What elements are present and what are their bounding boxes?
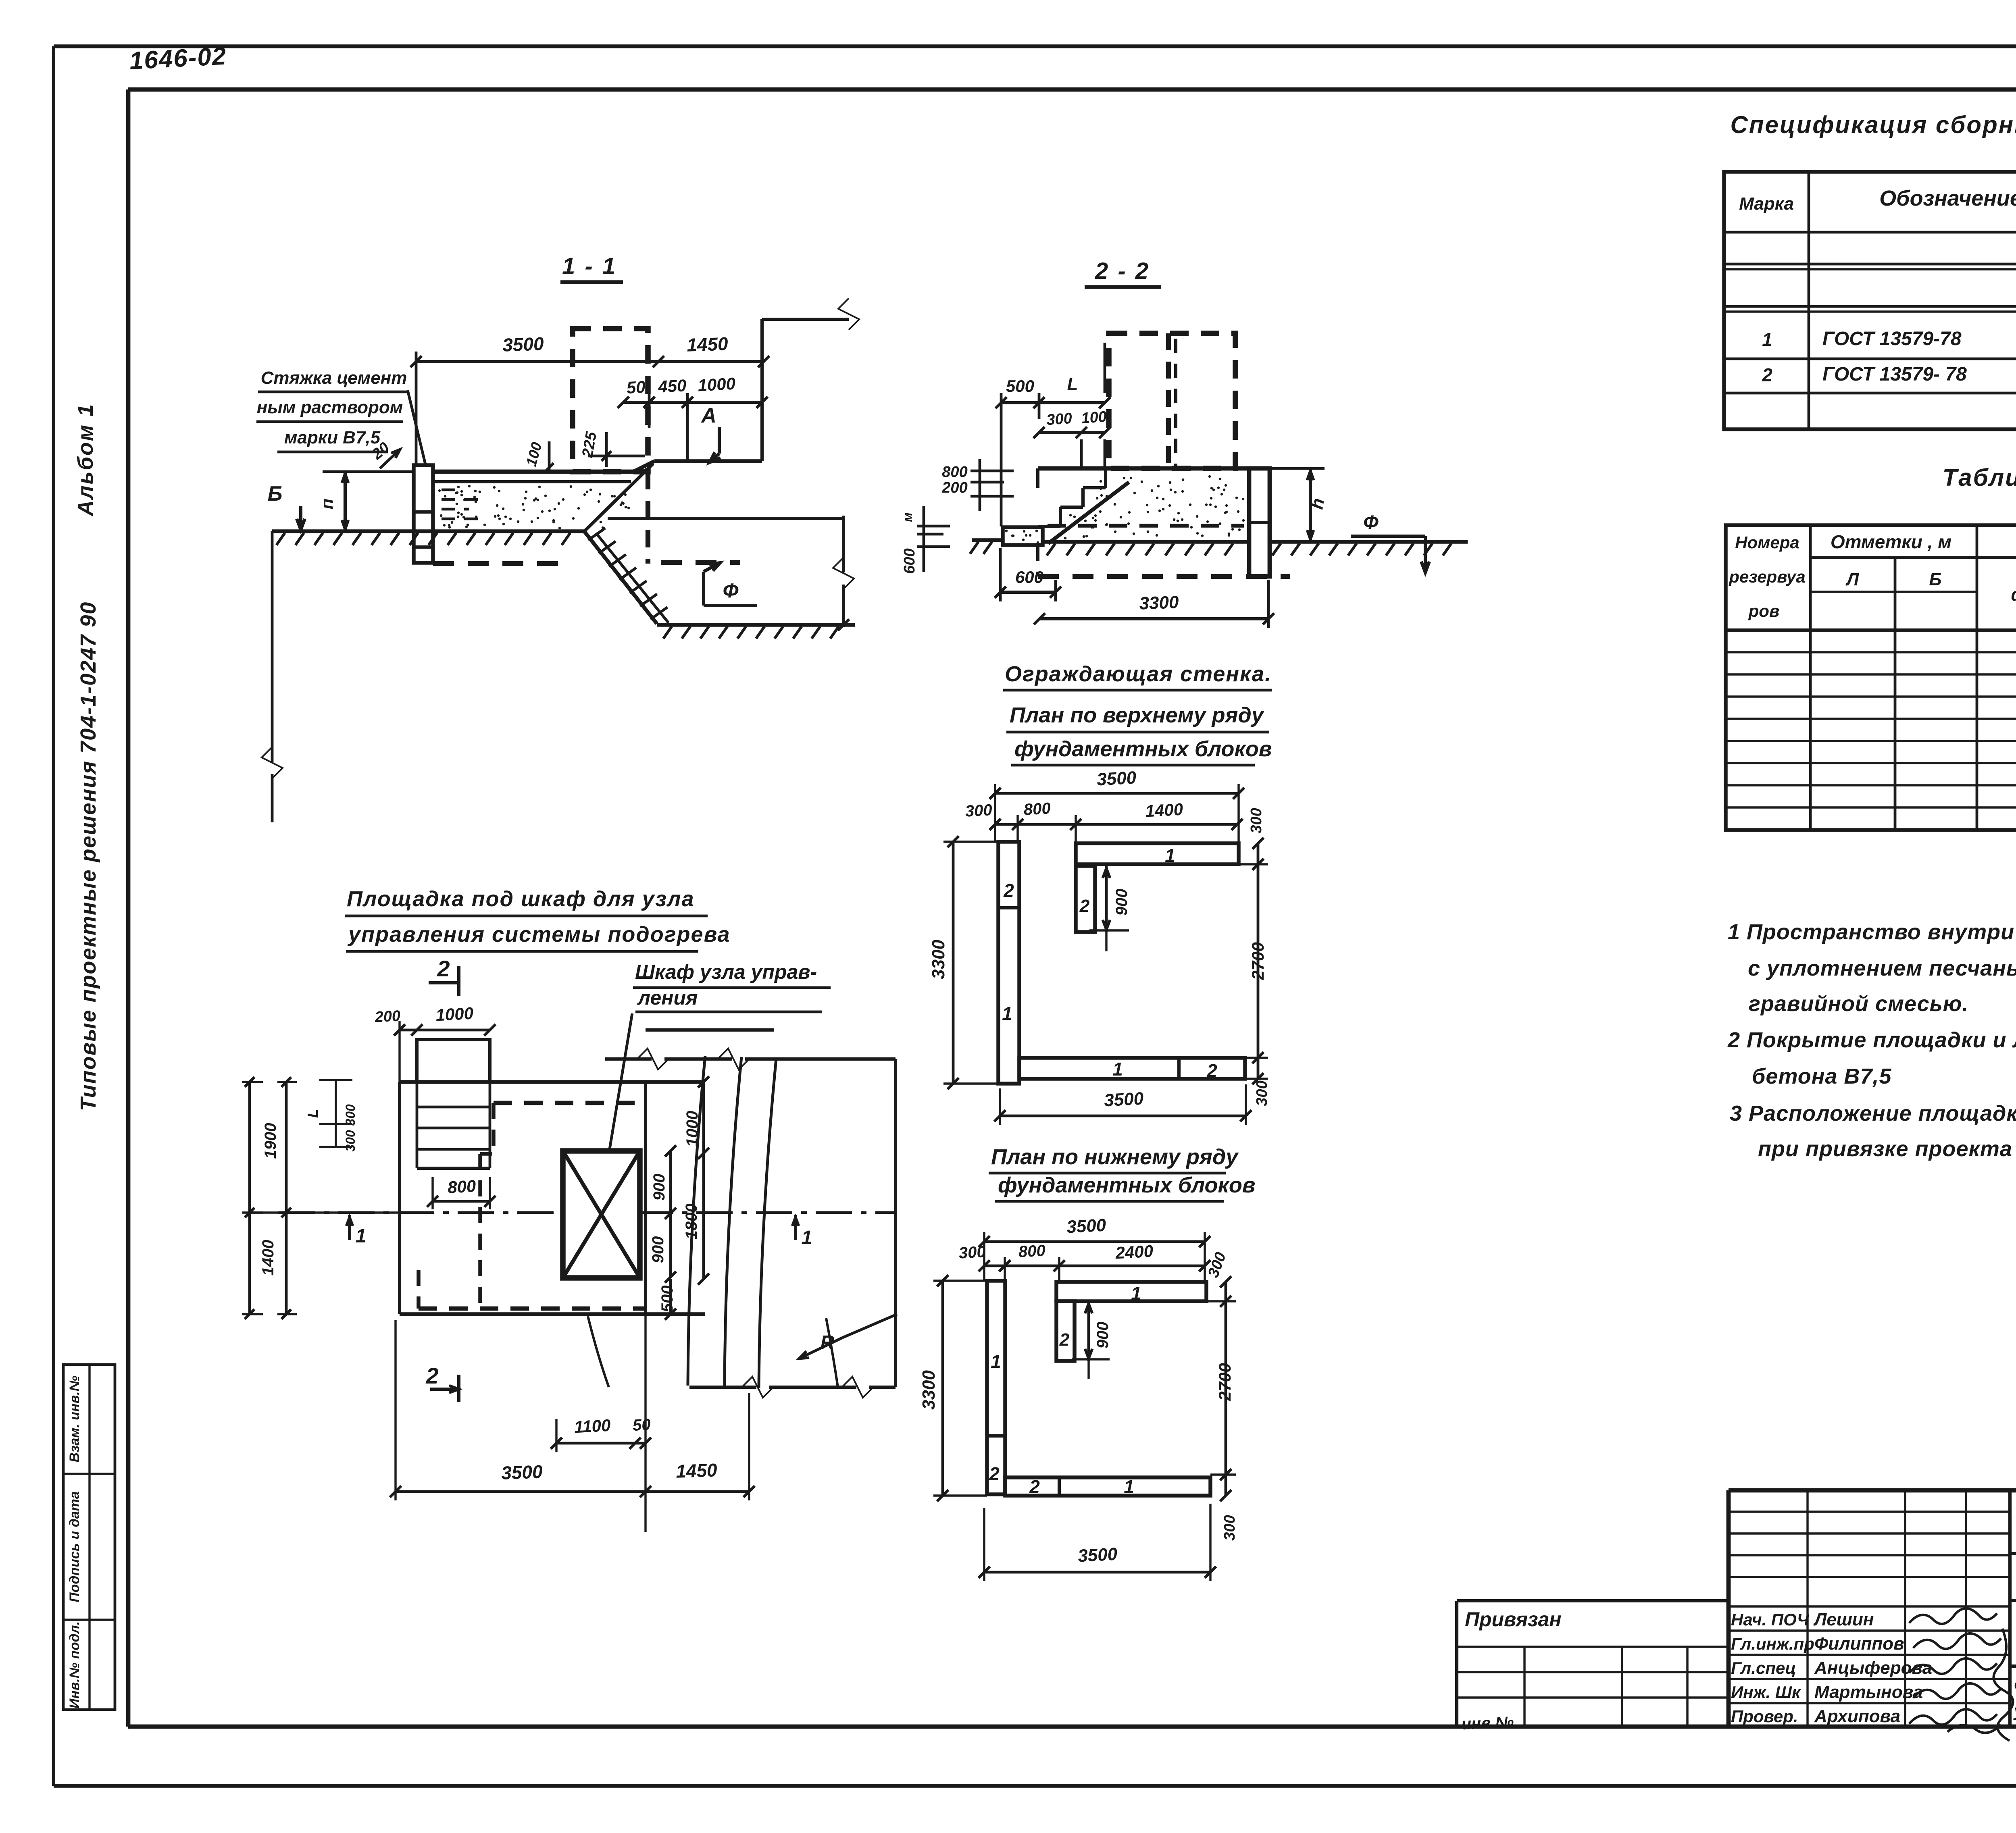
svg-text:1900: 1900 bbox=[262, 1123, 279, 1159]
platform plan: section mark 2 (top) bbox=[429, 956, 459, 996]
svg-text:План по нижнему ряду: План по нижнему ряду bbox=[991, 1145, 1239, 1169]
svg-text:2: 2 bbox=[1029, 1476, 1040, 1497]
section 2-2 foundation body with steps bbox=[1038, 468, 1270, 543]
svg-text:Архипова: Архипова bbox=[1814, 1706, 1900, 1726]
svg-text:Мартынова: Мартынова bbox=[1814, 1682, 1923, 1702]
svg-text:гравийной смесью.: гравийной смесью. bbox=[1749, 992, 1968, 1016]
svg-text:Альбом 1: Альбом 1 bbox=[73, 403, 98, 517]
left margin vertical text: album 1 bbox=[73, 403, 98, 517]
tank wall outline bbox=[605, 1049, 896, 1398]
section 1-1 node mark B bbox=[268, 482, 305, 530]
svg-text:800: 800 bbox=[447, 1176, 476, 1197]
platform plan: cabinet rectangle with cross bbox=[563, 1151, 640, 1278]
upper row plan: bottom dimension 3500 bbox=[994, 1084, 1252, 1125]
svg-text:900: 900 bbox=[650, 1174, 668, 1201]
svg-text:900: 900 bbox=[1113, 889, 1131, 916]
svg-text:Ограждающая стенка.: Ограждающая стенка. bbox=[1005, 662, 1272, 686]
svg-text:м: м bbox=[900, 512, 915, 522]
svg-text:3500: 3500 bbox=[1104, 1088, 1144, 1110]
section 2-2 bottom dimension 3300 bbox=[1034, 580, 1274, 628]
section 1-1 right reference line and 600 drop bbox=[608, 516, 854, 630]
svg-text:Ф: Ф bbox=[723, 579, 738, 602]
upper row plan: dimension 300 800 1400 bbox=[965, 799, 1243, 843]
svg-text:50: 50 bbox=[632, 1416, 651, 1434]
section 2-2 fill stipple bbox=[1064, 475, 1245, 539]
screed note text (cement screed B7.5) bbox=[256, 368, 427, 469]
svg-text:2: 2 bbox=[1206, 1060, 1217, 1081]
lower row plan: bottom dimension 3500 bbox=[979, 1504, 1216, 1581]
svg-text:ным раствором: ным раствором bbox=[257, 397, 403, 417]
svg-text:1450: 1450 bbox=[686, 333, 729, 356]
svg-text:бетона В7,5: бетона В7,5 bbox=[1752, 1064, 1891, 1088]
svg-text:1: 1 bbox=[1002, 1003, 1012, 1024]
svg-text:1: 1 bbox=[356, 1225, 367, 1247]
svg-text:2400: 2400 bbox=[1114, 1242, 1154, 1263]
section 1-1 slope mark 20 bbox=[369, 439, 400, 468]
svg-text:Взам. инв.№: Взам. инв.№ bbox=[67, 1375, 82, 1462]
platform plan: left dimensions 1900 1400 bbox=[242, 1077, 400, 1319]
section 1-1 node mark A bbox=[700, 404, 721, 462]
svg-text:3300: 3300 bbox=[919, 1370, 939, 1410]
svg-text:500: 500 bbox=[1006, 377, 1034, 395]
svg-text:2: 2 bbox=[1003, 880, 1014, 901]
svg-text:L: L bbox=[304, 1109, 321, 1118]
section 2-2 left concrete pad bbox=[1003, 527, 1043, 545]
section 1-1 top dimension line 3500 1450 bbox=[410, 333, 769, 465]
svg-text:300: 300 bbox=[1221, 1515, 1238, 1540]
section 1-1 fill slope line bbox=[584, 464, 653, 531]
platform plan: dimensions 1100 50 bbox=[551, 1416, 651, 1452]
lower row plan titles bbox=[989, 1145, 1255, 1201]
left margin vertical text: project series bbox=[76, 601, 100, 1111]
svg-text:Б: Б bbox=[268, 482, 283, 506]
platform plan: stairs bbox=[417, 1082, 490, 1168]
svg-text:3500: 3500 bbox=[501, 1461, 543, 1483]
svg-text:3300: 3300 bbox=[929, 940, 948, 979]
svg-text:План по верхнему ряду: План по верхнему ряду bbox=[1010, 703, 1265, 727]
svg-text:1646-02: 1646-02 bbox=[129, 42, 227, 75]
section 2-2 top dimension 500 L bbox=[996, 343, 1110, 526]
section 1-1 cabinet dashed outline bbox=[573, 329, 648, 564]
svg-text:ф: ф bbox=[2011, 585, 2016, 605]
title block change-log grid bbox=[1729, 1490, 2010, 1727]
svg-text:3500: 3500 bbox=[1066, 1215, 1107, 1237]
svg-text:Таблица привязки: Таблица привязки bbox=[1943, 464, 2016, 491]
section 1-1 height dimension n bbox=[317, 472, 414, 531]
section 1-1 lower ground line with hatch bbox=[657, 625, 855, 639]
svg-text:Фундамент под шкаф узла: Фундамент под шкаф узла bbox=[2014, 1676, 2016, 1696]
upper row plan: small block 2 bbox=[1076, 866, 1095, 932]
specification table headers bbox=[1739, 185, 2016, 229]
title block document code TPR 704-1-0247.90 KZh.1 bbox=[2010, 1508, 2016, 1554]
svg-text:3500: 3500 bbox=[1077, 1544, 1118, 1566]
svg-text:100: 100 bbox=[1081, 408, 1107, 427]
section 1-1 dimension 100 bbox=[523, 440, 554, 472]
svg-text:Б: Б bbox=[1929, 570, 1941, 589]
svg-text:800: 800 bbox=[942, 464, 967, 481]
svg-text:900: 900 bbox=[1094, 1322, 1112, 1349]
svg-text:1000: 1000 bbox=[697, 374, 736, 395]
upper row plan: left dimension 3300 bbox=[929, 836, 998, 1089]
lower row plan: left block column bbox=[987, 1281, 1005, 1494]
lower row plan: left dimension 3300 bbox=[919, 1275, 987, 1501]
svg-text:ГОСТ 13579-78: ГОСТ 13579-78 bbox=[1822, 328, 1962, 350]
svg-text:Ф: Ф bbox=[1363, 512, 1379, 533]
svg-text:резервуа: резервуа bbox=[1729, 567, 1805, 586]
auxiliary line above tank bbox=[646, 1028, 774, 1032]
lower row plan: top dimension 3500 bbox=[979, 1215, 1210, 1282]
svg-text:Типовые проектные решения 7: Типовые проектные решения 704-1-0247 90 bbox=[76, 601, 100, 1111]
upper row plan: dimension 900 bbox=[1089, 866, 1131, 951]
section 1-1 foundation wall block bbox=[414, 465, 433, 563]
platform plan titles bbox=[345, 887, 731, 951]
section 1-1 title bbox=[560, 253, 623, 282]
svg-text:ления: ления bbox=[637, 986, 698, 1009]
svg-text:300: 300 bbox=[343, 1130, 358, 1152]
binding table title bbox=[1943, 464, 2016, 491]
section 1-1 screed slab and bench bbox=[433, 298, 859, 482]
svg-text:450: 450 bbox=[657, 376, 687, 396]
svg-text:Стяжка цемент: Стяжка цемент bbox=[261, 368, 407, 388]
section 2-2 ground line with hatch bbox=[970, 540, 1468, 556]
svg-text:1000: 1000 bbox=[435, 1004, 474, 1025]
lower row plan: bottom blocks 2 1 bbox=[1005, 1476, 1210, 1497]
svg-text:1400: 1400 bbox=[1145, 800, 1183, 821]
lower row plan: right dimensions 300 2700 300 bbox=[1205, 1250, 1238, 1541]
svg-text:50: 50 bbox=[626, 377, 646, 397]
section 1-1 dimension line 50 450 1000 bbox=[618, 374, 768, 461]
svg-text:инв №: инв № bbox=[1461, 1713, 1514, 1733]
cabinet label with leader bbox=[605, 961, 831, 1165]
svg-text:300: 300 bbox=[1254, 1080, 1270, 1106]
lower row plan: dimension 300 800 2400 bbox=[958, 1242, 1210, 1282]
svg-text:2700: 2700 bbox=[1215, 1363, 1234, 1401]
section 1-1 left break line bbox=[262, 531, 283, 822]
svg-text:1: 1 bbox=[802, 1227, 812, 1248]
svg-text:3500: 3500 bbox=[502, 333, 544, 356]
svg-text:Привязан: Привязан bbox=[1465, 1608, 1562, 1631]
section 2-2 right foundation column bbox=[1249, 468, 1270, 576]
upper row plan: top block 1 bbox=[1076, 843, 1239, 866]
section 1-1 sand fill stipple bbox=[438, 485, 630, 529]
platform plan: dimensions 900 900 bbox=[649, 1145, 676, 1283]
svg-text:Инв.№ подл.: Инв.№ подл. bbox=[67, 1621, 82, 1709]
svg-text:фундаментных блоков: фундаментных блоков bbox=[998, 1173, 1255, 1197]
svg-text:2: 2 bbox=[1079, 896, 1090, 916]
svg-text:Подпись и дата: Подпись и дата bbox=[67, 1491, 82, 1602]
svg-text:2: 2 bbox=[1059, 1330, 1070, 1350]
notes text block bbox=[1727, 920, 2016, 1161]
svg-text:А: А bbox=[700, 404, 716, 427]
lower row plan: dimension 900 bbox=[1072, 1301, 1112, 1379]
svg-text:300: 300 bbox=[958, 1243, 986, 1262]
svg-text:1: 1 bbox=[991, 1351, 1001, 1372]
svg-text:900: 900 bbox=[649, 1236, 667, 1263]
section 2-2 height dimension h bbox=[1270, 468, 1328, 542]
svg-text:600: 600 bbox=[1015, 568, 1043, 587]
platform plan: dimension 800 bbox=[427, 1176, 496, 1209]
platform plan: dimension 500 bbox=[658, 1279, 676, 1320]
svg-text:2 - 2: 2 - 2 bbox=[1095, 258, 1150, 284]
svg-text:2700: 2700 bbox=[1248, 942, 1267, 980]
platform plan: hidden dashed outline bbox=[419, 1103, 646, 1309]
enclosing wall titles bbox=[1003, 662, 1272, 765]
upper row plan: left block column bbox=[998, 842, 1019, 1084]
svg-text:Отметки , м: Отметки , м bbox=[1831, 531, 1951, 552]
specification table title bbox=[1730, 111, 2016, 138]
svg-text:Марка: Марка bbox=[1739, 194, 1794, 214]
section 2-2 left elevation marks 800 200 bbox=[941, 459, 1014, 511]
lower row plan: small block 2 bbox=[1056, 1301, 1075, 1361]
title block outline bbox=[1729, 1490, 2016, 1727]
tank wall curves bbox=[588, 1056, 838, 1388]
svg-text:1: 1 bbox=[1124, 1476, 1134, 1497]
svg-text:Нач. ПОЧ: Нач. ПОЧ bbox=[1731, 1610, 1810, 1629]
section 2-2 sub dimension 300 100 bbox=[1033, 408, 1110, 468]
svg-text:1: 1 bbox=[1112, 1059, 1123, 1080]
tank radius mark R bbox=[799, 1314, 897, 1359]
platform plan: stair landing and top dimension 200 1000 bbox=[374, 1004, 496, 1082]
platform plan: small left dimensions L 300 300 bbox=[304, 1080, 358, 1152]
svg-text:3500: 3500 bbox=[1096, 768, 1137, 789]
svg-text:300: 300 bbox=[1046, 410, 1073, 429]
svg-text:800: 800 bbox=[1023, 799, 1051, 818]
platform plan: section marks 1 bbox=[346, 1215, 812, 1248]
svg-text:ГОСТ 13579- 78: ГОСТ 13579- 78 bbox=[1822, 364, 1967, 385]
svg-text:Лешин: Лешин bbox=[1813, 1610, 1874, 1629]
title block project name section bbox=[2010, 1600, 2016, 1727]
svg-text:1: 1 bbox=[1131, 1283, 1141, 1304]
svg-text:Филиппов: Филиппов bbox=[1814, 1634, 1904, 1654]
handwritten document number 1646-02 bbox=[129, 42, 227, 75]
privyazan table bbox=[1457, 1601, 1729, 1733]
platform plan: outline bbox=[400, 1082, 705, 1314]
svg-text:при привязке проекта: при привязке проекта bbox=[1758, 1137, 2012, 1161]
svg-text:управления системой подогрева.: управления системой подогрева. bbox=[2013, 1701, 2016, 1720]
svg-text:3 Расположение площадки под: 3 Расположение площадки под шкаф определ… bbox=[1730, 1101, 2016, 1126]
svg-text:Инж. Шк: Инж. Шк bbox=[1731, 1683, 1801, 1702]
svg-text:2: 2 bbox=[989, 1463, 1000, 1484]
svg-text:Л: Л bbox=[1845, 570, 1859, 589]
section 2-2 underground dashed line bbox=[1038, 545, 1290, 576]
svg-text:800: 800 bbox=[1018, 1242, 1046, 1261]
section 1-1 foundation level mark F bbox=[704, 563, 757, 605]
svg-text:Шкаф узла управ-: Шкаф узла управ- bbox=[635, 961, 817, 983]
upper row plan: right dimensions 300 2700 300 bbox=[1239, 808, 1270, 1106]
svg-text:1: 1 bbox=[1762, 329, 1772, 350]
section 2-2 foundation level mark F bbox=[1351, 512, 1429, 572]
svg-text:300: 300 bbox=[343, 1104, 358, 1126]
svg-text:1: 1 bbox=[1165, 845, 1175, 866]
section 2-2 title bbox=[1085, 258, 1161, 287]
svg-text:ров: ров bbox=[1748, 601, 1780, 620]
section 2-2 left elevation mark 600 bbox=[900, 506, 950, 574]
svg-text:с уплотнением песчаным грун: с уплотнением песчаным грунтом или песча… bbox=[1748, 956, 2016, 980]
svg-text:Спецификация сборных железоб: Спецификация сборных железобетонных элем… bbox=[1730, 111, 2016, 138]
svg-text:фундаментных блоков: фундаментных блоков bbox=[1014, 737, 1272, 761]
svg-text:L: L bbox=[1067, 375, 1078, 394]
upper row plan: bottom blocks 1 2 bbox=[1019, 1058, 1245, 1081]
svg-text:1400: 1400 bbox=[259, 1240, 277, 1276]
specification row 1: FBS 24.3.6-T bbox=[1762, 327, 2016, 350]
specification row 2: FBS 9.3.6-T bbox=[1762, 362, 2016, 385]
svg-text:300: 300 bbox=[1248, 808, 1265, 833]
svg-text:марки В7,5: марки В7,5 bbox=[284, 428, 381, 447]
svg-text:Номера: Номера bbox=[1735, 533, 1799, 552]
section 1-1 ground level line with hatch bbox=[272, 531, 584, 545]
binding table grid bbox=[1726, 525, 2016, 830]
platform plan: section mark 2 (bottom) bbox=[425, 1363, 459, 1402]
svg-text:1100: 1100 bbox=[574, 1416, 611, 1437]
platform plan: centre axis line bbox=[279, 1211, 896, 1214]
svg-text:2: 2 bbox=[1762, 364, 1772, 385]
svg-text:Обозначение: Обозначение bbox=[1879, 186, 2016, 210]
left margin stamp table bbox=[63, 1365, 115, 1710]
svg-text:Гл.спец: Гл.спец bbox=[1731, 1658, 1796, 1677]
svg-text:2: 2 bbox=[425, 1363, 438, 1388]
svg-text:п: п bbox=[317, 498, 337, 509]
section 2-2 bottom dimension 600 bbox=[995, 548, 1061, 601]
svg-text:300: 300 bbox=[965, 801, 993, 820]
specification table grid bbox=[1724, 172, 2016, 429]
title block signature rows bbox=[1729, 1608, 2013, 1741]
svg-text:600: 600 bbox=[901, 548, 918, 574]
binding table headers bbox=[1729, 531, 2016, 620]
platform plan: bottom dimensions 3500 1450 bbox=[390, 1316, 755, 1532]
section 2-2 tank dashed outline bbox=[1109, 333, 1235, 468]
svg-text:1 - 1: 1 - 1 bbox=[562, 253, 617, 279]
lower row plan: top block 1 bbox=[1056, 1282, 1206, 1304]
svg-text:Провер.: Провер. bbox=[1731, 1707, 1798, 1726]
svg-text:200: 200 bbox=[374, 1007, 401, 1026]
svg-text:2 Покрытие площадки и лест: 2 Покрытие площадки и лестницу выполнять… bbox=[1727, 1028, 2016, 1052]
upper row plan: top dimension 3500 bbox=[989, 768, 1244, 843]
svg-text:Площадка под шкаф для узла: Площадка под шкаф для узла bbox=[347, 887, 695, 911]
svg-text:Гл.инж.пр: Гл.инж.пр bbox=[1731, 1634, 1814, 1653]
svg-text:3300: 3300 bbox=[1139, 592, 1179, 613]
section 1-1 underground dashed outline bbox=[433, 562, 740, 564]
section 1-1 dimension 225 bbox=[579, 430, 645, 467]
svg-text:200: 200 bbox=[941, 479, 967, 496]
section 1-1 excavation slope band bbox=[584, 528, 669, 624]
svg-text:500: 500 bbox=[658, 1286, 676, 1313]
title block sheet name and organization bbox=[2013, 1676, 2016, 1724]
svg-text:2: 2 bbox=[437, 956, 450, 981]
svg-text:1450: 1450 bbox=[675, 1459, 718, 1482]
svg-text:1 Пространство внутри огражд: 1 Пространство внутри ограждающей стенки… bbox=[1728, 920, 2016, 944]
platform plan: dimensions 1000 1800 bbox=[683, 1076, 709, 1285]
svg-text:управления системы подогрева: управления системы подогрева bbox=[347, 922, 731, 947]
